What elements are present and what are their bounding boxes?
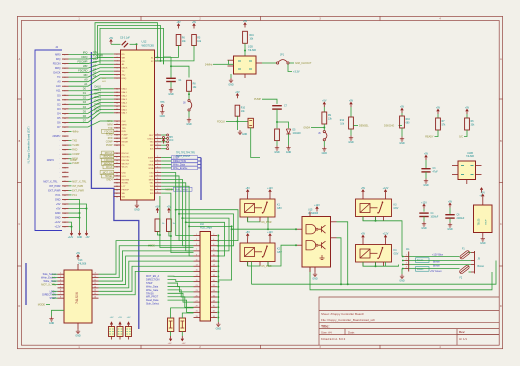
svg-text:RD: RD [122,54,126,56]
svg-text:TXD: TXD [122,128,127,130]
wire branch to relay trunk [189,225,232,227]
diode D3 [168,318,174,332]
svg-text:C5 0.1uF: C5 0.1uF [120,37,130,40]
svg-text:+5V: +5V [155,206,160,209]
U13 pin left 6 [58,290,65,292]
svg-text:GND: GND [242,134,247,136]
U13 right wires staircase to J10 [99,241,194,275]
J4 pin 3 FDCIN [62,63,69,65]
svg-text:RD/OSC: RD/OSC [122,156,131,158]
U12 left pin LCT [114,185,121,187]
svg-text:FDCON: FDCON [122,160,130,162]
net label DENSEL [353,125,358,127]
svg-text:RD/OSC: RD/OSC [104,157,113,159]
svg-text:DAL0: DAL0 [122,88,128,91]
J4 pin 29 row [62,180,69,182]
J4 pin 14 D4 [62,112,69,114]
svg-text:16: 16 [94,297,96,299]
svg-text:17: 17 [196,275,198,277]
svg-text:COMP: COMP [122,138,129,140]
U12 right pin US1 [155,175,162,177]
capacitor C3 [425,155,428,160]
capacitor C4 1000uF [423,204,426,209]
diode D4 [179,318,185,332]
U12 right pin WD [155,185,162,187]
svg-text:13: 13 [196,265,198,267]
relay K1 coil [245,204,255,213]
power above PS1 [482,194,485,199]
wire U15 output 2 down [337,238,342,284]
svg-text:U15: U15 [308,209,313,212]
wire K3 bottom to J11 [363,217,402,257]
svg-text:GND4: GND4 [106,179,113,181]
svg-text:GND: GND [55,197,61,201]
vertical feed from relay K4 right [385,262,387,266]
U15 bottom pin 2 stub [309,267,311,272]
power above K2 [246,234,249,239]
svg-text:DSKC: DSKC [148,138,154,140]
svg-text:IRQ: IRQ [56,57,61,61]
svg-text:A10: A10 [56,84,61,88]
svg-text:+5V: +5V [465,107,470,110]
svg-text:GND: GND [286,151,292,154]
relay K2 pins [247,239,249,244]
U12 left pin PUMP [114,134,121,136]
svg-text:+12V: +12V [314,204,320,207]
wire K4 bottom to J11 [363,262,399,266]
svg-text:24MHz: 24MHz [205,63,213,66]
svg-text:FDCON: FDCON [104,131,113,133]
svg-text:DAL6: DAL6 [122,108,128,111]
svg-text:+5V: +5V [118,317,122,319]
wires D3 D4 to J10 [171,308,194,318]
resistor R15 [168,208,171,213]
J10 pin 16 [211,270,218,272]
svg-text:RDCLK: RDCLK [105,153,113,155]
J10 pin 20 [211,281,218,283]
wire nest U12 to J10 left [161,173,193,236]
svg-text:D6_PWR: D6_PWR [262,221,272,224]
svg-text:DRQ: DRQ [82,55,88,59]
svg-text:HDSEL: HDSEL [105,176,113,178]
U12 left pin RD/OSC [114,156,121,158]
svg-text:EXT_PWR: EXT_PWR [48,188,60,192]
svg-text:WE: WE [122,193,126,195]
J4 pin 10 D0 [62,94,69,96]
wire JP1 to +3.3V label [288,64,292,71]
U12 left pin HDSEL [114,182,121,184]
net label FDCLK [226,120,237,122]
svg-text:WDA: WDA [149,163,154,166]
relay K1 body [240,199,275,217]
svg-text:+12V: +12V [383,187,389,190]
svg-text:MCP: MCP [486,219,488,224]
U12 left pin US0 [114,172,121,174]
ground below J8 [188,111,190,117]
svg-text:10: 10 [94,276,96,278]
U13 pin left 1 [58,273,65,275]
U12 left pin CLK [114,120,121,122]
svg-text:29: 29 [196,306,198,308]
U13 pin right 11 [92,280,99,282]
svg-text:2: 2 [406,259,407,261]
J10 pin 25 [194,296,201,298]
svg-text:D4: D4 [57,111,61,115]
frame division ticks [140,16,142,20]
ground at X1 [230,74,232,78]
svg-text:GND: GND [49,322,55,325]
svg-text:PUMP: PUMP [106,145,113,147]
svg-text:24MHz: 24MHz [47,160,55,162]
svg-text:5: 5 [196,244,197,246]
J10 pin 4 [211,240,218,242]
J10 pin 2 [211,235,218,237]
svg-text:TC: TC [122,71,125,73]
wire down to test area [251,128,260,158]
svg-text:10: 10 [213,254,215,256]
wire R6 to U12 [158,46,179,58]
svg-text:KiCad E.D.A. 8.0.3: KiCad E.D.A. 8.0.3 [321,337,346,341]
svg-text:Side_Select: Side_Select [146,303,159,306]
ground below C6 [448,223,452,228]
svg-text:STEP: STEP [49,297,56,300]
J4 pin 6 TC [62,76,69,78]
U12 right pin WP [155,144,162,146]
ground below R16 [401,128,403,137]
U13 pin left 2 [58,277,65,279]
svg-text:+12V: +12V [54,225,60,229]
svg-text:SID: SID [150,193,154,195]
svg-text:2: 2 [60,276,61,278]
net label READY [311,127,324,129]
svg-text:D5_PWR: D5_PWR [262,265,272,268]
U12 right pin DSKC [155,137,162,139]
U12 left pin DAL1 [114,91,121,93]
svg-text:27: 27 [196,300,198,302]
svg-text:U12: U12 [142,40,147,44]
svg-text:RXD: RXD [72,149,77,152]
J10 pin 17 [194,276,201,278]
relay K2 contact [255,251,263,253]
svg-text:47uF: 47uF [433,171,439,173]
J4 pin 4 DRQ [62,67,69,69]
U13 pin right 13 [92,287,99,289]
svg-text:MOT_X_TRL: MOT_X_TRL [43,180,58,183]
U12 left pin DAL4 [114,102,121,104]
J4 pin 22 row [62,149,69,151]
ground below R12 [350,129,352,136]
svg-text:DAL1: DAL1 [122,91,128,94]
U15 bottom pin 2 return wire [310,267,492,290]
svg-text:DAL7: DAL7 [95,110,102,113]
svg-text:33: 33 [196,316,198,318]
resistor R10 [236,94,239,99]
net label READY at R7 [435,130,439,137]
U13 pin right 9 [92,273,99,275]
grounds below R13 and D5 [276,141,278,146]
resistor R7 [437,109,440,114]
svg-text:FDCWR: FDCWR [93,53,103,57]
svg-text:+5V: +5V [76,252,81,255]
wire loop over U12 top 1 [95,23,158,58]
U12 right pin X2 [155,60,162,62]
relay K3 body [356,199,392,217]
power flag +5V at U12 [110,40,113,45]
svg-text:MODE: MODE [122,141,129,143]
svg-text:DAL7: DAL7 [122,112,128,115]
capacitor C7 [272,105,282,107]
svg-text:+3.3V: +3.3V [293,71,300,74]
svg-text:R10: R10 [241,108,246,110]
svg-text:CLK: CLK [122,121,127,123]
svg-text:+5V: +5V [246,187,251,190]
wires into J11 [402,256,405,258]
svg-text:INT_PWR: INT_PWR [49,184,61,188]
svg-text:MFM: MFM [122,124,127,126]
svg-text:+5V: +5V [246,231,251,234]
U12 left pin MFM [114,123,121,125]
svg-text:MFM: MFM [107,124,112,126]
wire R5 down [161,46,195,61]
svg-text:GND: GND [274,151,280,154]
svg-text:78L05: 78L05 [478,218,481,225]
svg-text:N_Floppy Controller Board (EXT: N_Floppy Controller Board (EXT) [28,126,31,163]
wire PUMP to C7 [262,99,277,104]
svg-text:74LS06: 74LS06 [75,292,79,304]
jumper J6 [323,124,325,131]
J4 pin 5 DACK [62,72,69,74]
svg-text:11: 11 [196,259,198,261]
power arrow +5V down [85,231,88,236]
wire K1 to U15 input 1 [267,217,269,229]
J4 pin 8 A10 [62,85,69,87]
J10 pin 5 [194,245,201,247]
U12 right pin TR0 [155,141,162,143]
svg-text:R19: R19 [250,35,255,37]
U12 top pin VCC [136,44,138,50]
svg-text:15: 15 [94,293,96,295]
J10 pin 12 [211,260,218,262]
resistor R13 [275,129,280,141]
U13 power pin [77,264,79,270]
svg-text:G5V: G5V [277,207,282,210]
svg-text:DAL3: DAL3 [122,98,128,101]
U12 right pin STEP [155,157,162,159]
relay K4 body [356,245,392,263]
J4 pin 35 +5V [62,208,69,210]
svg-text:Date:: Date: [348,331,355,335]
svg-text:INT_PWR: INT_PWR [72,185,83,188]
svg-text:MOT_ON: MOT_ON [103,173,113,175]
svg-text:+12V: +12V [267,231,273,234]
svg-text:G5V: G5V [277,251,282,254]
wires J4 to U12 [69,53,114,56]
U13 pin left 4 [58,283,65,285]
svg-text:4: 4 [60,283,61,285]
svg-text:GND: GND [322,152,328,155]
ground for U15 [313,272,317,277]
power arrows below D3 D4 [170,332,172,337]
J4 pin 26 row [62,167,69,169]
J10 pin 7 [194,250,201,252]
J4 pin 34 +5V [62,203,69,205]
J4 pin 28 row [62,176,69,178]
J4 pin 24 row [62,158,69,160]
U12 right pin WG [155,189,162,191]
J10 pin 13 [194,265,201,267]
J10 pin 1 [194,235,201,237]
oscillator X1 24MHz body [234,56,257,74]
J4 pin 25 row [62,162,69,164]
J10 pin 30 [211,306,218,308]
resistor R5 pull-up [193,24,196,29]
svg-text:9: 9 [196,254,197,256]
svg-text:A1: A1 [93,67,97,71]
svg-text:GND: GND [216,328,222,331]
PS1 pins [482,199,484,205]
resistor R6 pull-up [177,24,180,29]
svg-text:28: 28 [213,300,215,302]
svg-text:+5V: +5V [192,21,197,24]
fuse F1 [459,250,470,260]
wire R10 junction [236,116,238,126]
capacitor C5 (diagonal) [122,41,128,47]
svg-text:DIR: DIR [150,161,154,163]
svg-text:24: 24 [213,290,215,292]
svg-text:COMP: COMP [106,142,113,144]
svg-text:+5V: +5V [243,20,248,23]
capacitor C6 2200uF [449,203,452,208]
U12 right pin WGA [155,167,162,169]
power at U10 [480,188,483,193]
svg-text:+12V: +12V [68,237,74,239]
U13 spare input to ground [52,310,65,316]
J10 pin 10 [211,255,218,257]
title block [319,297,499,345]
svg-text:D6: D6 [57,120,61,124]
svg-text:1: 1 [60,273,61,275]
U12 left pin TC [114,70,121,72]
U12 left pin US1 [114,175,121,177]
svg-text:1/2B: 1/2B [248,47,253,49]
svg-text:TP1,TP2,TP4,TP5: TP1,TP2,TP4,TP5 [176,153,195,155]
wire X1 left loop to label [229,60,234,64]
svg-text:3: 3 [196,239,197,241]
wires labels to J10 pins [168,275,194,277]
relay K3 pins [362,195,364,200]
svg-text:RDY: RDY [149,135,154,137]
U13 pin right 10 [92,277,99,279]
J4 pin 19 24MHz [62,135,69,137]
ground below J6 [323,141,325,147]
svg-text:IDX: IDX [150,149,154,151]
svg-text:A11: A11 [56,89,61,93]
svg-text:11: 11 [94,279,96,281]
svg-text:+5V: +5V [109,37,114,40]
power above K1 [246,190,249,195]
U12 left pin IRQ [114,74,121,76]
svg-text:S/C: S/C [459,136,463,139]
svg-text:+12V: +12V [421,201,427,204]
svg-text:20: 20 [213,280,215,282]
bus stub left of U13 [25,263,27,305]
resistor R6b [466,109,469,114]
svg-text:DACK: DACK [53,71,60,75]
J10 pin 23 [194,291,201,293]
U12 left pin DAL3 [114,98,121,100]
J10 pin 14 [211,265,218,267]
svg-text:PC1: PC1 [72,194,77,197]
U12 right pin X1 [155,56,162,58]
svg-text:D0: D0 [57,93,61,97]
J10 pin 32 [211,311,218,313]
svg-text:5: 5 [60,286,61,288]
svg-text:+5V: +5V [361,233,366,236]
power net labels at J4 [69,180,72,182]
J10 pin 11 [194,260,201,262]
svg-text:GND: GND [399,280,405,283]
svg-text:MOT_X_TRL: MOT_X_TRL [41,283,56,286]
U13 pin left 3 [58,280,65,282]
svg-text:D: D [500,305,502,308]
svg-text:WG: WG [150,190,154,192]
svg-text:+5V: +5V [349,100,354,103]
U12 left pin WG [114,196,121,198]
svg-text:IRQ: IRQ [122,74,126,76]
svg-text:A0: A0 [93,64,97,68]
svg-text:16: 16 [213,270,215,272]
U15 transistor 1 [319,225,326,233]
svg-text:+5V: +5V [436,107,441,110]
svg-text:HDSEL: HDSEL [122,183,130,185]
svg-text:2: 2 [213,234,214,236]
svg-text:74LS06: 74LS06 [248,50,257,52]
J4 pin 21 row [62,144,69,146]
J4 pin 9 A11 [62,90,69,92]
U12 left pin WCLK [114,166,121,168]
wire nest branches to J10 right [176,210,238,241]
U13 pin left 5 [58,287,65,289]
resistor R12 with +5V [350,102,353,107]
svg-text:DAL5: DAL5 [122,105,128,108]
U15 transistor 2 [319,241,326,249]
svg-text:J10: J10 [200,223,205,226]
power above U15 [316,207,319,212]
svg-text:DAL2: DAL2 [122,95,128,98]
svg-text:EXT_PWR: EXT_PWR [72,189,84,192]
svg-text:A0: A0 [84,78,88,82]
svg-text:WDOUT: WDOUT [104,163,113,165]
diode D5 1N4148 [277,122,289,128]
J4 pin 27 row [62,171,69,173]
svg-text:RXD: RXD [108,138,113,140]
svg-text:12: 12 [213,259,215,261]
svg-text:TP3: TP3 [169,137,174,139]
svg-text:VCC: VCC [169,140,174,142]
svg-text:19: 19 [196,280,198,282]
power arrow GND down [78,231,81,236]
svg-text:WR: WR [83,64,88,68]
svg-text:DSKCHG: DSKCHG [384,125,394,128]
svg-text:+12V: +12V [54,220,60,224]
svg-text:23: 23 [196,290,198,292]
ground at J10 [216,322,220,327]
J4 pin 17 D7 [62,126,69,128]
J4 pin 32 PC1 [62,194,69,196]
J10 pin 3 [194,240,201,242]
J10 pin 15 [194,270,201,272]
U13 pin right 12 [92,283,99,285]
